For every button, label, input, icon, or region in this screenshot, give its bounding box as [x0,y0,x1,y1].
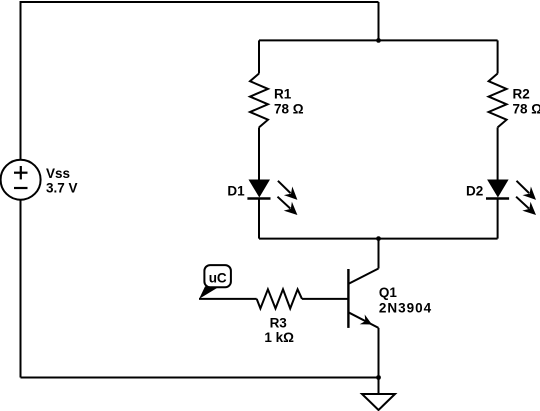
voltage source minus sign [14,187,28,189]
node junction middle rail [376,236,381,241]
svg-text:2N3904: 2N3904 [379,301,432,316]
wire D2 cathode to middle rail [497,199,499,239]
wire left vertical lower [20,200,22,378]
wire collector lead [378,239,380,269]
svg-text:1 kΩ: 1 kΩ [264,330,294,345]
LED D1 light arrow 2 [278,197,298,215]
transistor Q1 emitter arrowhead [360,315,372,325]
resistor R1 [250,74,268,128]
microcontroller bubble tail [199,287,219,299]
LED D2 light arrow 1 [517,181,537,200]
wire middle rail [259,238,498,240]
svg-text:R2: R2 [513,87,530,102]
resistor R2 [489,74,507,128]
wire R2 top lead [497,40,499,73]
microcontroller bubble uC box [204,265,231,287]
resistor R3 [257,289,302,308]
wire D1 cathode to middle rail [258,199,260,239]
LED D1 light arrow 1 [278,181,298,200]
svg-text:R3: R3 [270,315,288,330]
voltage source plus sign [14,166,28,188]
transistor Q1 base bar [347,269,349,328]
LED D1 cathode bar [247,197,270,200]
wire top rail between R1 and R2 [259,39,498,41]
transistor Q1 collector diagonal [348,269,378,284]
wire bottom rail [21,377,379,379]
svg-text:78 Ω: 78 Ω [274,102,304,117]
svg-text:78 Ω: 78 Ω [513,102,540,117]
transistor Q1 emitter diagonal [348,312,378,328]
wire top horizontal [21,1,379,3]
svg-text:Vss: Vss [46,166,70,181]
wire left vertical upper [20,1,22,160]
LED D2 light arrow 2 [516,197,536,215]
ground stem [378,378,380,395]
wire R1 top lead [258,40,260,73]
wire R2 to D2 [497,127,499,180]
LED D1 triangle [249,180,271,198]
wire top-right vertical drop [378,2,380,40]
svg-text:uC: uC [209,271,227,286]
wire emitter lead [378,328,380,378]
svg-text:R1: R1 [274,87,292,102]
svg-text:D2: D2 [466,183,483,198]
svg-text:Q1: Q1 [379,285,398,300]
node junction top rail [376,38,381,43]
LED D2 triangle [487,180,509,198]
svg-text:D1: D1 [227,183,245,198]
wire uC to R3 [199,298,257,300]
voltage source V1 circle [1,160,41,200]
wire R3 to base [302,298,348,300]
ground symbol triangle [362,394,395,410]
svg-text:3.7 V: 3.7 V [46,181,78,196]
wire R1 to D1 [258,127,260,180]
node junction bottom rail [376,375,381,380]
LED D2 cathode bar [486,197,509,200]
